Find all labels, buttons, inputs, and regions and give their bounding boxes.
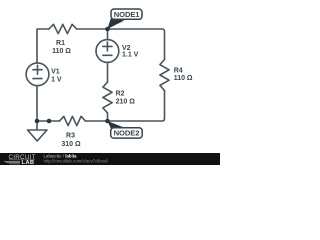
svg-text:NODE1: NODE1 [114, 10, 141, 19]
node NODE2 junction [105, 119, 110, 124]
ground [28, 121, 48, 141]
voltage source V2 [96, 40, 119, 63]
wire right bottom segment [85, 91, 164, 122]
node NODE1 junction [105, 27, 110, 32]
watermark bar [0, 153, 220, 166]
svg-text:R3: R3 [66, 133, 75, 140]
node wire junction [47, 119, 52, 124]
labels [51, 40, 193, 148]
voltage source V1 [26, 63, 49, 86]
wire bottom left segment [37, 120, 60, 122]
wire V1 bottom lead [36, 86, 38, 121]
svg-text:NODE2: NODE2 [114, 129, 140, 138]
svg-text:1 V: 1 V [51, 76, 62, 83]
svg-text:http://circuitlab.com/c/acv7d6: http://circuitlab.com/c/acv7d6cw6 [44, 159, 109, 164]
wire top right segment [77, 29, 165, 60]
node NODE1 flag [107, 9, 142, 29]
svg-text:LAB: LAB [22, 160, 35, 165]
node NODE2 flag [107, 121, 142, 138]
svg-text:110 Ω: 110 Ω [174, 75, 193, 82]
svg-text:R1: R1 [56, 40, 65, 47]
svg-text:R4: R4 [174, 68, 183, 75]
svg-text:110 Ω: 110 Ω [52, 48, 71, 55]
svg-text:R2: R2 [116, 91, 125, 98]
svg-text:1.1 V: 1.1 V [122, 52, 139, 59]
wire R2 bottom lead [107, 113, 109, 121]
resistor R3 [60, 116, 86, 125]
resistor R1 [49, 24, 77, 33]
node junction dots [35, 27, 110, 124]
svg-text:V1: V1 [51, 69, 60, 76]
svg-text:310 Ω: 310 Ω [61, 141, 81, 148]
wire top left segment [37, 29, 49, 63]
svg-text:210 Ω: 210 Ω [116, 99, 136, 106]
wire V2 to R2 [107, 62, 109, 82]
resistor R2 [103, 82, 112, 113]
resistor R4 [160, 60, 169, 91]
node ground junction [35, 119, 40, 124]
wire middle column top [107, 29, 109, 40]
